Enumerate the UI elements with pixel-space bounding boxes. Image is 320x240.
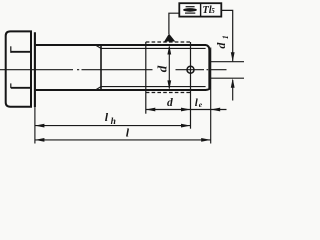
le dimension line with outside arrow [191,109,227,111]
washer face / bearing surface line [34,32,36,107]
d1 dimension arrow down [231,52,235,62]
thread runout diagonal bottom [95,87,101,90]
svg-text:5: 5 [211,7,215,15]
svg-text:d: d [214,42,228,49]
thread boundary line [100,45,102,90]
d1 dimension arrow up with tail [231,78,235,88]
cotter pin hole [187,66,194,73]
head lower chamfer line [11,87,31,89]
tolerance symbol (line, lens, line) [186,6,195,8]
tolerance frame box [179,3,221,16]
svg-text:d: d [154,65,169,72]
extension line from bearing face down to dimensions [34,107,36,144]
tolerance frame leader right (to d1) [221,10,232,57]
hex head outline [6,31,31,106]
nut outline dashed bottom [146,92,191,94]
nut outline dashed top [146,41,191,43]
head upper chamfer line [11,51,31,53]
thread root line bottom [101,86,206,88]
l dimension line [35,139,211,141]
svg-text:d: d [167,97,173,109]
d1 label (rotated) [214,35,230,48]
d1 upper extension line [211,61,244,63]
nut right side / extension line [190,42,192,129]
svg-text:1: 1 [221,35,230,39]
tolerance frame leader left + datum triangle [169,13,179,34]
head hex edge upper [10,46,12,53]
nut left side / extension line [145,42,147,114]
d1 lower extension line [211,77,244,79]
bolt end face [208,50,210,90]
bolt shank and threaded body outline [36,45,210,90]
svg-text:h: h [111,117,116,127]
head hex edge lower [10,83,12,88]
lh dimension line [35,125,191,127]
centerline (bolt axis, dash-dot) [0,69,227,71]
extension line of bolt end (le / l) [210,48,212,144]
d diameter dimension line (vertical inside bolt) [168,47,170,89]
thread root line top [101,47,206,49]
d (thread length) dimension line [146,109,191,111]
thread runout diagonal top [95,45,101,48]
d label (rotated, at diameter dimension) [154,65,169,72]
